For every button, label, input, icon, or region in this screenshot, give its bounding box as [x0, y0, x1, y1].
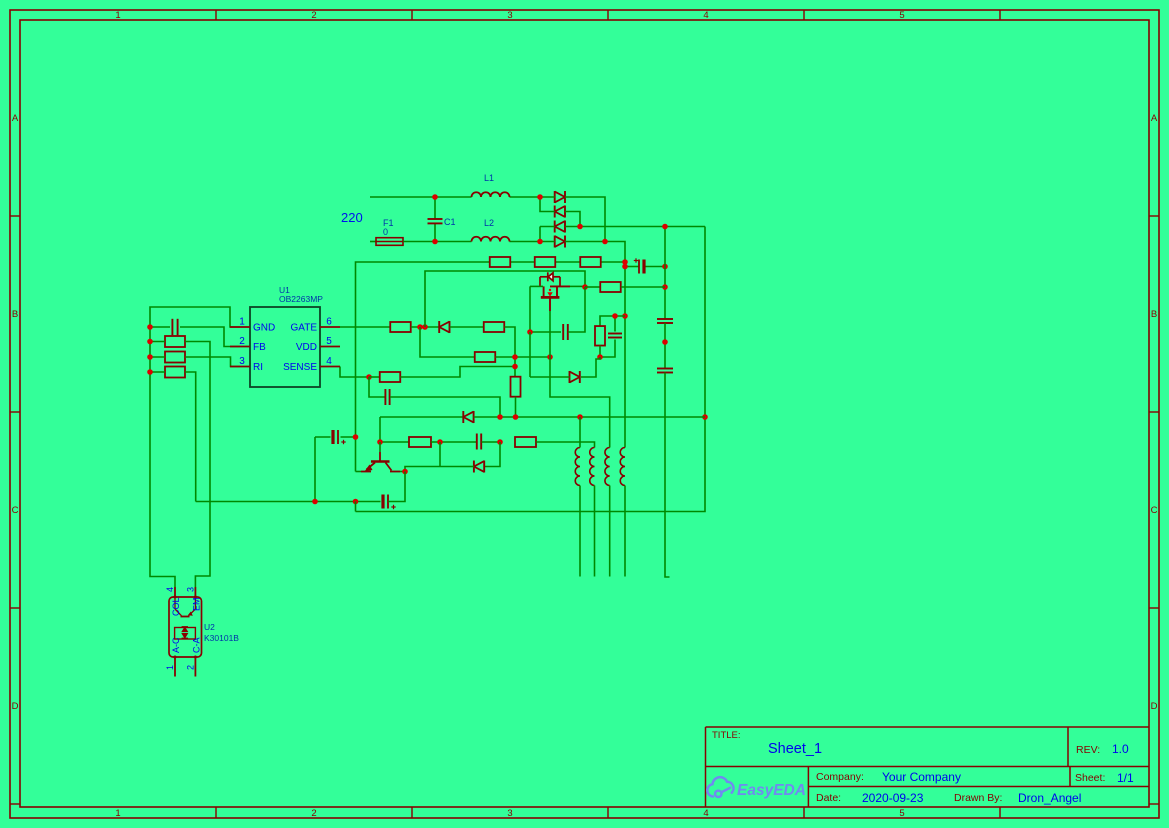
svg-text:0: 0 [383, 227, 388, 237]
capacitor row442 [476, 434, 478, 450]
wire bridge left D1-D2 [540, 197, 555, 212]
wire DC+ rail to corner [580, 226, 705, 228]
junction x625 y316 [622, 313, 628, 319]
resistor current sense vertical [511, 377, 521, 397]
resistor gate series 1 [390, 322, 411, 332]
wire rail x705 down to bottom loop [356, 227, 706, 512]
svg-text:Date:: Date: [816, 792, 841, 804]
svg-text:3: 3 [507, 808, 512, 819]
junction x665 y287 [662, 284, 668, 290]
wire ecap437 branch [315, 436, 356, 438]
junction D1-D4 join [602, 239, 608, 245]
junction gate node [582, 284, 588, 290]
junction row442 mid [437, 439, 443, 445]
capacitor combo [608, 333, 622, 335]
diode bridge D2 [554, 206, 556, 218]
capacitor sense filter [384, 389, 386, 405]
U2 corner junctions [174, 596, 177, 599]
svg-text:C: C [12, 505, 19, 516]
resistor left row341 [165, 336, 185, 347]
wire gate R1 to diode [411, 326, 439, 328]
junction rail501 a [312, 499, 318, 505]
mosfet Q1 body diode [540, 272, 560, 286]
wire x315 drop [314, 437, 316, 502]
frame row ticks right [1149, 215, 1159, 217]
mosfet Q1 gate bar [550, 285, 570, 287]
fuse F1 [376, 238, 403, 246]
wire cap gs right [568, 287, 585, 332]
junction gate node a [417, 324, 423, 330]
U2 inner LED pair [175, 628, 196, 640]
wire row372 [150, 372, 196, 502]
svg-text:FB: FB [253, 342, 266, 353]
junction row442 right [497, 439, 503, 445]
junction C1 bottom [432, 239, 438, 245]
junction rail 341 [147, 339, 153, 345]
wire base node to R [380, 441, 409, 443]
svg-text:4: 4 [165, 587, 175, 592]
junction rail 357 [147, 354, 153, 360]
wire cap-fb row [150, 327, 240, 347]
wire row442 to winding2 [536, 442, 595, 448]
electrolytic capacitor row437 [331, 430, 334, 444]
resistor gate series 2 [484, 322, 505, 332]
svg-text:3: 3 [239, 356, 245, 367]
svg-text:EM: EM [192, 598, 202, 612]
U1 pin 4 SENSE [320, 366, 340, 368]
frame column ticks top [215, 10, 217, 20]
wire row417 left riser [379, 417, 381, 442]
svg-text:COL: COL [171, 597, 181, 616]
diode row467 [473, 461, 475, 473]
svg-text:A: A [12, 113, 19, 124]
junction x665 y342 [662, 339, 668, 345]
U2 pin 3 top [194, 587, 196, 597]
svg-text:GND: GND [253, 323, 275, 334]
wire mosfet left drop [530, 286, 561, 332]
svg-text:1: 1 [239, 317, 245, 328]
wire gate node to R287 [585, 286, 600, 288]
wire rail 511 link [355, 502, 357, 512]
junction row442 base [377, 439, 383, 445]
capacitor x665 upper [657, 318, 673, 320]
svg-text:A-C: A-C [171, 637, 181, 653]
wire winding4 bottom [624, 486, 626, 577]
wire sense resistor bottom [515, 397, 517, 417]
wire row357 right [495, 356, 550, 358]
junction row357 b [547, 354, 553, 360]
resistor row357 [475, 352, 496, 362]
electrolytic capacitor row501 [381, 495, 384, 509]
wire bridge left D3-D4 [540, 227, 555, 242]
wire combo bottom [600, 340, 615, 358]
junction ecap437 right [353, 434, 359, 440]
wire sense cap right [390, 397, 500, 417]
junction D4 bottom rail [537, 239, 543, 245]
electrolytic capacitor bulk [638, 260, 640, 274]
svg-text:220: 220 [341, 210, 363, 225]
wire x665 bottom stub [665, 373, 670, 578]
svg-text:VDD: VDD [296, 342, 317, 353]
wire bridge D1 out right [565, 197, 605, 242]
transformer winding 2 [590, 448, 595, 486]
wire row417 to diode [380, 416, 463, 418]
wire row442 R to cap [431, 441, 477, 443]
svg-text:Your Company: Your Company [882, 770, 961, 784]
wire winding1 top [579, 417, 581, 448]
wire combo to diode377 [581, 357, 600, 377]
resistor row442 second [515, 437, 536, 447]
mosfet Q1 channel [541, 286, 560, 311]
inductor L1 [472, 192, 510, 197]
diode row377 [569, 371, 571, 383]
junction combo bottom [597, 354, 603, 360]
svg-text:C-A: C-A [192, 638, 202, 654]
junction rail 372 [147, 369, 153, 375]
svg-text:1: 1 [165, 665, 175, 670]
inductor L2 [472, 237, 510, 242]
wire SENSE jog [340, 367, 369, 378]
svg-text:1: 1 [115, 808, 120, 819]
U1 pin 5 VDD [320, 346, 340, 348]
title block border [706, 727, 1150, 807]
resistor snubber 3 [580, 257, 601, 267]
junction gate node b [422, 324, 428, 330]
svg-text:3: 3 [186, 587, 196, 592]
svg-text:OB2263MP: OB2263MP [279, 294, 323, 304]
junction rail 327 [147, 324, 153, 330]
wire drain down to winding3 [550, 311, 610, 448]
svg-text:2: 2 [311, 10, 316, 21]
svg-text:D: D [1151, 701, 1158, 712]
wire gate node down to row357 [420, 327, 475, 357]
capacitor x665 lower [657, 368, 673, 370]
transformer winding 3 [605, 448, 610, 486]
wire Q2 collector right [400, 471, 405, 473]
svg-text:Dron_Angel: Dron_Angel [1018, 791, 1081, 805]
svg-text:1/1: 1/1 [1117, 771, 1134, 785]
svg-text:L2: L2 [484, 218, 494, 228]
wire ecap501 right up [388, 472, 405, 502]
wire gate to node [570, 285, 585, 287]
U2 pin 2 bottom [194, 657, 196, 677]
resistor snubber 2 [535, 257, 556, 267]
junction collector [402, 469, 408, 475]
wire winding2 bottom [594, 486, 596, 577]
resistor sense filter [380, 372, 401, 382]
wire Q2 base up [379, 442, 381, 452]
svg-text:REV:: REV: [1076, 744, 1100, 756]
svg-text:GATE: GATE [291, 323, 318, 334]
diode bridge D1 [554, 191, 556, 203]
svg-text:5: 5 [899, 10, 904, 21]
svg-text:SENSE: SENSE [283, 362, 317, 373]
junction bulk right [662, 264, 668, 270]
wire snubber row left drop [356, 262, 626, 472]
svg-text:RI: RI [253, 362, 263, 373]
svg-text:A: A [1151, 113, 1158, 124]
wire gate node up-over to mosfet [425, 271, 585, 327]
wire fuse to C1 node [403, 241, 472, 243]
transformer winding 4 [620, 448, 625, 486]
resistor left row372 [165, 367, 185, 378]
wire winding3 bottom [609, 486, 611, 577]
U1 pin 1 GND [230, 326, 250, 328]
capacitor fb [171, 319, 173, 335]
resistor left row357 [165, 352, 185, 363]
wire diode row467 left lead [460, 466, 474, 468]
wire winding1 bottom [579, 486, 581, 577]
wire sense R right [400, 367, 515, 378]
wire row442 cap right [482, 441, 501, 443]
optocoupler U2 body [169, 597, 202, 657]
frame column ticks bottom [215, 807, 217, 818]
junction row417 a [497, 414, 503, 420]
wire x665 top segment [664, 227, 666, 320]
svg-text:C1: C1 [444, 217, 456, 227]
svg-text:TITLE:: TITLE: [712, 730, 741, 741]
junction row417 b [513, 414, 519, 420]
svg-text:Company:: Company: [816, 771, 864, 783]
svg-text:EasyEDA: EasyEDA [737, 782, 806, 799]
junction rail501 b [353, 499, 359, 505]
svg-text:L1: L1 [484, 173, 494, 183]
diode bridge D3 [554, 221, 556, 233]
diode bridge D4 [554, 236, 556, 248]
svg-text:B: B [12, 309, 18, 320]
diode gate speedup [438, 321, 440, 333]
capacitor gate-source [562, 324, 564, 340]
U2 pin 1 bottom [174, 657, 176, 677]
U1 pin 3 RI [230, 366, 250, 368]
wire GATE pin to R [340, 326, 390, 328]
U2 inner transistor [175, 597, 195, 617]
wire bridge D4 out [565, 242, 625, 448]
svg-text:5: 5 [899, 808, 904, 819]
junction rail 417 [702, 414, 708, 420]
svg-text:Sheet:: Sheet: [1075, 772, 1105, 784]
svg-text:2: 2 [186, 665, 196, 670]
junction snubber right [622, 259, 628, 265]
svg-text:3: 3 [507, 10, 512, 21]
svg-text:2: 2 [239, 336, 245, 347]
wire row357L [150, 357, 240, 367]
junction C1 top [432, 194, 438, 200]
wire row341 [150, 342, 210, 588]
diode row417 [462, 411, 464, 423]
wire row417 diode to rail [474, 416, 705, 418]
wire AC top to L1 [370, 196, 472, 198]
resistor row287 [600, 282, 621, 292]
svg-text:Drawn By:: Drawn By: [954, 792, 1002, 804]
svg-text:2: 2 [311, 808, 316, 819]
svg-text:6: 6 [326, 317, 332, 328]
svg-text:C: C [1151, 505, 1158, 516]
wire R287 right [621, 286, 665, 288]
transformer winding 1 [575, 448, 580, 486]
transistor Q2 [361, 452, 400, 472]
wire mosfet source left [530, 285, 543, 287]
wire sense cap branch [369, 377, 385, 397]
svg-text:D: D [12, 701, 19, 712]
svg-text:B: B [1151, 309, 1157, 320]
wire left rail [150, 307, 240, 587]
junction sense-R junction x515 [512, 364, 518, 370]
op IC U1 body [250, 307, 320, 387]
capacitor C1 [434, 197, 436, 219]
wire combo top node [600, 316, 625, 332]
svg-text:1: 1 [115, 10, 120, 21]
wire L2 to bridge [510, 241, 541, 243]
wire bulk cap left [625, 266, 639, 268]
wire bottom rail 501 [196, 501, 381, 503]
junction sense node [366, 374, 372, 380]
wire bridge D2 out to D3 [565, 212, 580, 227]
resistor snubber 1 [490, 257, 511, 267]
junction cap gs left [527, 329, 533, 335]
junction row417 c [577, 414, 583, 420]
wire bulk cap right [644, 266, 665, 268]
U1 pin 6 GATE [320, 326, 340, 328]
svg-text:K30101B: K30101B [204, 633, 239, 643]
wire x530 between cap and 377 [529, 332, 531, 377]
wire gate diode to R2 [450, 326, 484, 328]
resistor row442 [409, 437, 431, 447]
junction D2-D3 [577, 224, 583, 230]
U2 pin 4 top [174, 587, 176, 597]
wire x665 mid segment [664, 323, 666, 369]
mosfet Q1 arrow [547, 289, 552, 297]
wire AC bottom to fuse [370, 241, 376, 243]
junction row357 a [512, 354, 518, 360]
svg-text:4: 4 [703, 808, 708, 819]
wire L1 to bridge [510, 196, 541, 198]
svg-text:Sheet_1: Sheet_1 [768, 741, 822, 757]
EasyEDA logo cloud [707, 777, 733, 797]
svg-text:5: 5 [326, 336, 332, 347]
wire gate R2 to corner down [504, 327, 515, 377]
svg-text:4: 4 [703, 10, 708, 21]
svg-text:2020-09-23: 2020-09-23 [862, 791, 924, 805]
resistor combo vertical [595, 326, 605, 346]
wire Q2 emitter left [356, 471, 362, 473]
svg-text:U2: U2 [204, 622, 215, 632]
junction x665 y227 [662, 224, 668, 230]
svg-text:4: 4 [326, 356, 332, 367]
wire row467 link [405, 442, 500, 472]
junction combo top cap [612, 313, 618, 319]
frame row ticks left [10, 215, 20, 217]
wire sense to R [369, 376, 380, 378]
U1 pin 2 FB [230, 346, 250, 348]
wire diode377 left [530, 376, 570, 378]
junction D1 top rail [537, 194, 543, 200]
junction bulk left [622, 264, 628, 270]
svg-text:1.0: 1.0 [1112, 742, 1129, 756]
